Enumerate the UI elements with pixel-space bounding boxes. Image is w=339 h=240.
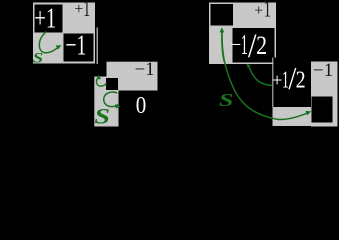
svg-text:−1: −1 bbox=[313, 61, 334, 81]
svg-text:−1: −1 bbox=[135, 60, 155, 80]
svg-text:2: 2 bbox=[296, 67, 306, 93]
group3 blockB black cell bottom-right bbox=[312, 97, 333, 123]
group2 silver left column bbox=[94, 77, 118, 127]
svg-text:+1: +1 bbox=[34, 2, 56, 34]
group3 small arc arrow head (pointing up-left) bbox=[246, 64, 250, 68]
group2 C-loop arrow head bbox=[115, 104, 120, 109]
group3 blockB +1/2 black box bbox=[273, 58, 311, 108]
group3 small arc arrow bbox=[249, 67, 272, 85]
group3 blockA black cell top-left bbox=[211, 4, 234, 26]
group2 black 0-box bbox=[119, 91, 164, 131]
group2 C-loop arrow bbox=[104, 92, 118, 107]
svg-text:−1: −1 bbox=[65, 29, 86, 61]
group1 S-arrow head bbox=[56, 45, 62, 49]
svg-text:S: S bbox=[33, 49, 43, 65]
svg-text:2: 2 bbox=[256, 31, 267, 60]
group2 curl arrow bbox=[96, 77, 106, 86]
svg-text:−: − bbox=[230, 34, 241, 56]
svg-text:+: + bbox=[272, 71, 283, 92]
group2 silver top region bbox=[107, 62, 158, 91]
svg-text:S: S bbox=[94, 103, 110, 129]
svg-text:1: 1 bbox=[241, 29, 248, 61]
group3 up arrow head bbox=[220, 27, 225, 32]
svg-text:0: 0 bbox=[136, 92, 147, 119]
svg-text:+: + bbox=[254, 2, 263, 19]
svg-text:1: 1 bbox=[264, 0, 271, 22]
svg-text:S: S bbox=[219, 90, 234, 110]
group3 blockA -1/2 black box bbox=[233, 28, 275, 63]
group1 S-arrow hook bbox=[39, 32, 58, 53]
group3 swoosh arrow head bbox=[305, 111, 311, 116]
group3 blockA silver rect bbox=[209, 3, 276, 65]
group1 cell -1 (black, bottom-right) bbox=[64, 34, 94, 62]
group2 black cell (small) bbox=[106, 78, 118, 90]
group2 left sliver line bbox=[97, 28, 98, 65]
group1 cell +1 (black, top-left) bbox=[35, 5, 63, 33]
group3 up arrow bbox=[222, 31, 224, 62]
group2 curl arrow head (up) bbox=[96, 75, 101, 80]
group3 blockB silver bottom strip bbox=[273, 107, 312, 126]
group1 silver grid bbox=[33, 3, 95, 64]
group3 swoosh arrow bbox=[222, 31, 308, 120]
group3 blockB silver right column bbox=[311, 62, 338, 127]
svg-text:+: + bbox=[75, 1, 84, 18]
group3 blockB left sliver line bbox=[272, 58, 273, 108]
svg-text:1: 1 bbox=[83, 0, 90, 22]
